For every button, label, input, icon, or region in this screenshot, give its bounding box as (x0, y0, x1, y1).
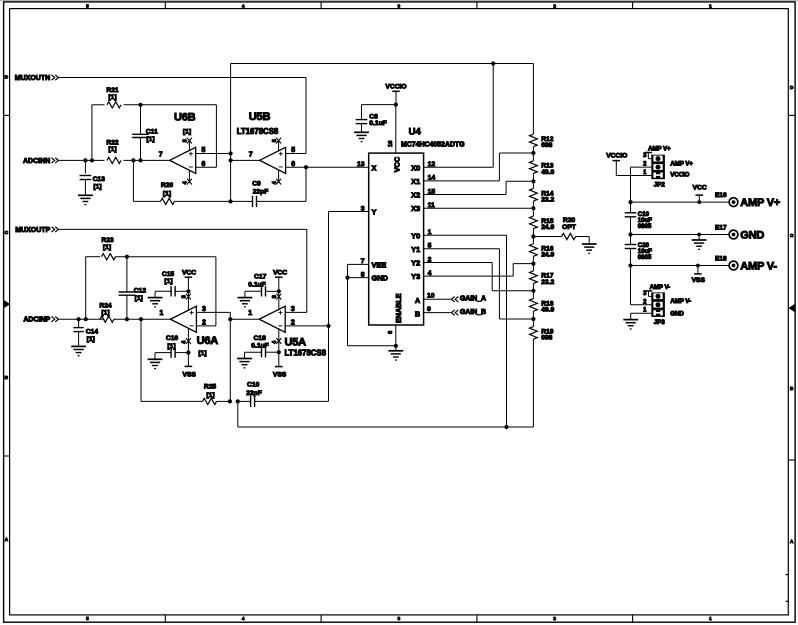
svg-text:6: 6 (201, 161, 205, 168)
U6B power pin 4 (183, 170, 192, 185)
svg-text:Y2: Y2 (411, 259, 420, 268)
junction ladder return riser (236, 399, 240, 403)
U5B pin 6 stub and wire to U4 X (286, 161, 369, 168)
svg-text:C9: C9 (252, 181, 261, 188)
node VSS flag at C16 (183, 353, 197, 379)
svg-text:D: D (790, 85, 794, 90)
svg-text:[1]: [1] (101, 309, 109, 316)
svg-text:ADCINP: ADCINP (23, 317, 50, 324)
svg-text:VCC: VCC (693, 185, 707, 192)
frame row ticks right (788, 114, 795, 116)
svg-text:5: 5 (291, 147, 295, 154)
svg-text:C13: C13 (93, 176, 106, 183)
ground at C16 (148, 359, 163, 368)
wire node A vertical (230, 64, 232, 202)
svg-text:23.2: 23.2 (541, 196, 554, 203)
wire top rail to ladder (231, 63, 534, 65)
junction VEE/GND (345, 276, 349, 280)
capacitor C20 (625, 242, 653, 261)
svg-text:[1]: [1] (146, 136, 154, 143)
U5A power pin 4 (272, 328, 281, 352)
junction C9 wire / node A (229, 199, 233, 203)
svg-text:2: 2 (553, 616, 556, 621)
node MUXOUTN input flag (15, 75, 59, 82)
node VSS flag at C18 (273, 352, 287, 378)
svg-text:GND: GND (372, 274, 389, 283)
svg-text:B: B (415, 309, 420, 318)
svg-text:R26: R26 (161, 182, 174, 189)
svg-text:2: 2 (291, 320, 295, 327)
frame top grey edge (0, 0, 798, 2)
resistor R22 (106, 139, 121, 163)
svg-text:10: 10 (427, 293, 435, 300)
svg-text:MC74HC4052ADTG: MC74HC4052ADTG (401, 141, 465, 148)
svg-text:A: A (5, 537, 9, 542)
resistor R16 (530, 237, 555, 264)
capacitor C12 (119, 257, 147, 320)
wire ADCINP line (left part) (59, 318, 105, 320)
svg-text:Y1: Y1 (411, 245, 420, 254)
svg-text:0805: 0805 (638, 254, 652, 261)
svg-text:5: 5 (201, 147, 205, 154)
svg-text:VSS: VSS (183, 371, 197, 378)
svg-text:MUXOUTN: MUXOUTN (15, 75, 50, 82)
svg-text:7: 7 (249, 151, 253, 158)
U5B pin 5 stub (286, 147, 306, 154)
capacitor C11 (132, 105, 158, 161)
wire R22 right to U6B output (124, 159, 170, 161)
ground at U4 (388, 346, 403, 360)
svg-text:D: D (5, 75, 9, 80)
op-amp U6A (170, 306, 218, 357)
svg-text:C17: C17 (254, 274, 267, 281)
wire Y3 route (424, 264, 534, 277)
junction R25 riser (139, 317, 143, 321)
svg-text:16: 16 (388, 140, 394, 147)
junction ladder tap y=236.5 (531, 234, 535, 238)
junction U6B pin5 / node A (229, 151, 233, 155)
svg-text:24.9: 24.9 (541, 224, 554, 231)
svg-text:ADCINN: ADCINN (23, 158, 50, 165)
capacitor C9 (231, 181, 306, 208)
wire AMP V+ / V- distribution vertical (630, 167, 632, 305)
junction U5A out / node A2 (228, 317, 232, 321)
U5A pin 3 stub (285, 306, 307, 313)
resistor R18 (530, 291, 555, 319)
junction C18 / U5A pin4 (277, 350, 281, 354)
svg-text:[1]: [1] (93, 184, 101, 191)
frame column ticks top (164, 2, 166, 9)
svg-text:[1]: [1] (183, 128, 191, 135)
junction R26 riser (131, 158, 135, 162)
junction AMP V- rail (628, 263, 632, 267)
svg-text:B: B (790, 386, 794, 391)
capacitor C18 (245, 335, 279, 359)
wire U5B pin 7 input (231, 159, 260, 161)
node GAIN_A label (451, 296, 486, 303)
wire U4 pin 8 GND (348, 277, 369, 279)
U6A pin 2 stub (196, 320, 216, 327)
U6B power pin 8 (183, 138, 192, 151)
U5A pin 2 stub (285, 320, 328, 327)
junction U5A pin2 / Y riser (326, 324, 330, 328)
svg-text:49.9: 49.9 (541, 307, 554, 314)
ground at R20 (582, 244, 597, 253)
node VCC flag on AMP V+ rail (693, 185, 707, 204)
svg-text:8: 8 (182, 295, 188, 298)
svg-text:Y: Y (372, 207, 377, 216)
U6A power pin 8 (182, 291, 191, 310)
capacitor C17 (245, 274, 279, 298)
svg-text:3: 3 (643, 153, 647, 159)
svg-text:0805: 0805 (638, 223, 652, 230)
JP3 net labels (670, 298, 691, 317)
svg-text:E17: E17 (715, 224, 727, 231)
junction node A2 / R25 wire (228, 399, 232, 403)
svg-text:[1]: [1] (87, 336, 95, 343)
wire MUXOUTP to U5A +in (59, 229, 307, 312)
ground at C17 (238, 298, 253, 307)
svg-text:AMP V-: AMP V- (670, 298, 691, 305)
wire Y2 route (424, 263, 534, 291)
ground at C14 (71, 346, 86, 355)
node VSS flag on AMP V- rail (692, 264, 706, 285)
junction C17 / U5A pin8 (277, 289, 281, 293)
connector JP2 (631, 153, 666, 188)
svg-text:3: 3 (202, 306, 206, 313)
wire R24 right to U6A output (114, 318, 170, 320)
wire X0 route (424, 64, 494, 168)
svg-text:X1: X1 (411, 177, 420, 186)
node AMP V+ flag at JP2 pin3 (645, 145, 671, 158)
junction ladder tap y=153.0 (531, 151, 535, 155)
resistor R14 (530, 181, 555, 208)
frame nubs right edge (786, 574, 789, 576)
resistor R19 (530, 319, 554, 427)
wire VEE/GND down to ground (348, 278, 396, 346)
wire Y riser down to C10 (328, 326, 330, 402)
wire AMP V- rail (631, 265, 730, 267)
svg-text:1: 1 (159, 310, 163, 317)
wire U4 pin 7 VEE (348, 264, 369, 277)
svg-text:C11: C11 (146, 128, 158, 135)
svg-text:0.1uF: 0.1uF (369, 120, 386, 127)
svg-text:A: A (790, 539, 794, 544)
node ADCINP input flag (23, 317, 58, 324)
node GAIN_B label (451, 309, 486, 316)
junction ladder tap y=181.3 (531, 179, 535, 183)
svg-text:49.9: 49.9 (541, 169, 554, 176)
svg-text:R20: R20 (563, 217, 576, 224)
junction U5B pin6 / C9 riser (304, 165, 308, 169)
wire R21 riser (92, 105, 105, 161)
svg-text:2: 2 (202, 320, 206, 327)
svg-text:VCC: VCC (393, 156, 402, 172)
capacitor C15 (155, 271, 188, 298)
U4 pin number labels right (427, 161, 435, 313)
junction R21-riser / ADCINN (90, 158, 94, 162)
svg-text:4: 4 (272, 341, 278, 344)
svg-text:23.2: 23.2 (541, 279, 554, 286)
svg-text:22pF: 22pF (246, 390, 262, 397)
wire X2 route (424, 181, 534, 194)
capacitor C13 (80, 160, 106, 195)
svg-text:VSS: VSS (273, 371, 287, 378)
junction AMP V+ rail (628, 200, 632, 204)
U6B pin 6 stub (196, 161, 217, 168)
svg-text:5: 5 (86, 616, 89, 621)
capacitor C14 (73, 319, 98, 346)
wire ladder bottom return (238, 401, 534, 427)
svg-text:U6B: U6B (174, 112, 196, 124)
node MUXOUTP input flag (15, 227, 58, 234)
svg-text:13: 13 (357, 161, 365, 168)
U6A power pin 4 (182, 328, 191, 352)
svg-text:4: 4 (272, 181, 278, 184)
svg-text:MUXOUTP: MUXOUTP (15, 227, 50, 234)
node ADCINN input flag (23, 158, 58, 165)
svg-text:[1]: [1] (206, 392, 214, 399)
svg-text:8: 8 (183, 139, 189, 142)
wire AMP V+ rail (631, 201, 730, 203)
svg-text:C10: C10 (247, 382, 260, 389)
svg-text:LT1678CS8: LT1678CS8 (237, 127, 279, 136)
junction X0 riser on rail (491, 61, 495, 65)
U4 pin number labels left (357, 161, 365, 278)
U5B power pin 4 (272, 170, 281, 185)
svg-text:LT1678CS8: LT1678CS8 (285, 349, 327, 358)
svg-text:JP2: JP2 (654, 181, 666, 188)
ground at C13 (78, 195, 93, 204)
svg-text:AMP V+: AMP V+ (670, 161, 693, 168)
frame row ticks left (4, 114, 10, 116)
junction U5B out / node A (229, 158, 233, 162)
svg-text:E18: E18 (715, 255, 727, 262)
svg-text:X3: X3 (411, 204, 420, 213)
svg-text:VCC: VCC (273, 269, 287, 276)
svg-text:4: 4 (183, 181, 189, 184)
wire R23 to U6A -in riser (116, 257, 216, 326)
svg-text:U4: U4 (409, 126, 422, 137)
svg-text:X2: X2 (411, 191, 420, 200)
svg-text:X0: X0 (411, 163, 420, 172)
node AMP V- flag at JP3 pin3 (645, 284, 670, 296)
svg-text:ENABLE: ENABLE (394, 293, 403, 323)
U5A power pin 8 (272, 291, 281, 310)
svg-text:Y3: Y3 (411, 272, 420, 281)
op-amp U5A (259, 306, 326, 357)
frame column ticks bottom (164, 615, 166, 622)
wire U4 Y pin to U5A -in (329, 212, 369, 326)
ground at C8 (354, 132, 369, 141)
svg-text:3: 3 (398, 4, 401, 9)
node VCC flag at C15 (182, 269, 196, 291)
resistor R25 (203, 383, 230, 404)
junction ladder tap y=263.6 (531, 262, 535, 266)
U6A pin 3 stub (196, 306, 230, 313)
wire X3 route (424, 207, 534, 209)
svg-text:VCC: VCC (182, 269, 196, 276)
wire U4 pin 10 A stub (424, 298, 451, 300)
capacitor C8 (356, 105, 396, 133)
svg-text:C14: C14 (86, 328, 99, 335)
svg-text:698: 698 (541, 142, 552, 149)
junction C13 / ADCINN (83, 158, 87, 162)
svg-text:4: 4 (242, 616, 245, 621)
svg-text:GND: GND (740, 229, 764, 241)
svg-text:4: 4 (242, 4, 245, 9)
pad E16 (715, 192, 738, 207)
svg-text:[1]: [1] (167, 343, 175, 350)
connector JP3 (631, 291, 666, 326)
U4 inside labels (372, 156, 421, 323)
wire ADCINN line (left part) (59, 159, 105, 161)
junction C14 / ADCINP (77, 317, 81, 321)
svg-text:3: 3 (643, 291, 647, 297)
svg-text:X: X (372, 163, 377, 172)
wire U4 pin 6 ENABLE (388, 325, 396, 346)
junction C16 / U6A pin4 (186, 351, 190, 355)
wire Y0 route (424, 235, 507, 427)
svg-text:Y0: Y0 (411, 231, 420, 240)
wire U5A pin 1 input (230, 318, 259, 320)
op-amp U5B (237, 111, 286, 174)
svg-text:[1]: [1] (108, 94, 116, 101)
svg-text:AMP V-: AMP V- (740, 260, 777, 272)
resistor R17 (530, 264, 555, 291)
svg-text:3: 3 (398, 616, 401, 621)
resistor R23 (101, 237, 115, 260)
svg-text:E16: E16 (715, 192, 727, 199)
ground at C18 (237, 359, 252, 368)
capacitor C16 (155, 335, 188, 359)
svg-text:1: 1 (248, 310, 252, 317)
wire R21 to U6B -in riser (124, 105, 217, 167)
svg-text:OPT: OPT (562, 224, 577, 231)
svg-text:A: A (415, 296, 421, 305)
svg-text:3: 3 (291, 306, 295, 313)
junction C11 top (138, 103, 142, 107)
junction ladder tap y=319.0 (531, 317, 535, 321)
pad E18 (715, 255, 738, 270)
resistor R21 (106, 87, 121, 108)
wire X1 route (424, 153, 534, 181)
svg-text:C12: C12 (134, 287, 147, 294)
svg-text:C16: C16 (166, 335, 179, 342)
svg-text:8: 8 (272, 139, 278, 142)
svg-text:0.1uF: 0.1uF (248, 281, 265, 288)
junction ladder tap y=290.8 (531, 289, 535, 293)
junction R23-riser / ADCINP (84, 317, 88, 321)
svg-text:[1]: [1] (164, 278, 172, 285)
junction C11 bottom (138, 158, 142, 162)
svg-text:2: 2 (553, 4, 556, 9)
svg-text:GAIN_A: GAIN_A (460, 296, 486, 303)
svg-text:[1]: [1] (103, 244, 111, 251)
svg-text:VCCIO: VCCIO (670, 172, 689, 179)
IC U4 MC74HC4052ADTG box (369, 126, 465, 325)
resistor R13 (530, 153, 555, 181)
svg-text:C: C (790, 233, 794, 238)
resistor R15 (530, 208, 555, 236)
svg-text:R25: R25 (204, 383, 217, 390)
svg-text:1: 1 (709, 4, 712, 9)
svg-text:6: 6 (291, 161, 295, 168)
svg-text:698: 698 (541, 334, 552, 341)
junction ladder tap y=208.2 (531, 206, 535, 210)
svg-text:U6A: U6A (197, 335, 219, 347)
junction C15 / U6A pin8 (186, 289, 190, 293)
svg-text:0.1uF: 0.1uF (251, 343, 268, 350)
svg-text:7: 7 (159, 151, 163, 158)
svg-text:AMP V+: AMP V+ (740, 197, 780, 209)
wire C9 riser (305, 167, 307, 201)
wire MUXOUTN to U5B +in (59, 78, 306, 154)
ground at C15 (148, 298, 163, 307)
svg-text:24.9: 24.9 (541, 252, 554, 259)
wire R23 riser (86, 257, 100, 320)
wire U4 pin 16 (388, 105, 396, 154)
svg-text:[1]: [1] (135, 295, 143, 302)
wire JP3 pin1 to ground (631, 313, 652, 319)
wire R25 riser down (141, 319, 203, 401)
capacitor C19 (625, 211, 653, 230)
node VCC flag at C17 (273, 269, 287, 291)
junction C12 top (125, 255, 129, 259)
svg-text:GAIN_B: GAIN_B (460, 309, 486, 316)
svg-text:[1]: [1] (198, 350, 206, 357)
svg-text:VEE: VEE (372, 260, 387, 269)
U5B power pin 8 (272, 138, 281, 151)
svg-text:[1]: [1] (163, 190, 171, 197)
svg-text:R23: R23 (101, 237, 114, 244)
junction Y0 riser / return (504, 425, 508, 429)
resistor R24 (99, 302, 114, 322)
wire R26 riser down (132, 160, 134, 201)
node VCCIO power flag (above U4) (385, 84, 406, 105)
U6B pin 5 stub (196, 147, 231, 154)
wire Y1 route (424, 249, 534, 319)
junction GND rail (628, 232, 632, 236)
svg-text:1: 1 (709, 616, 712, 621)
frame centering arrow right (788, 304, 795, 313)
frame centering arrow left (4, 300, 11, 309)
node VCCIO flag at JP2 (606, 152, 651, 175)
svg-text:C15: C15 (162, 271, 175, 278)
resistor R12 (530, 64, 554, 154)
op-amp U6B (170, 112, 196, 174)
svg-text:6: 6 (388, 330, 394, 334)
ground on GND rail (692, 233, 707, 250)
svg-text:U5B: U5B (249, 111, 271, 123)
svg-text:22pF: 22pF (253, 188, 269, 195)
wire node A2 vertical (229, 312, 231, 401)
svg-text:U5A: U5A (285, 336, 307, 348)
JP2 net labels (670, 161, 693, 179)
junction C8 / pin16 wire (394, 103, 398, 107)
svg-text:B: B (5, 375, 9, 380)
svg-text:5: 5 (86, 4, 89, 9)
capacitor C10 (238, 382, 329, 407)
svg-text:9: 9 (427, 306, 431, 313)
svg-text:[1]: [1] (108, 146, 116, 153)
svg-text:AMP V-: AMP V- (650, 284, 671, 291)
svg-text:AMP V+: AMP V+ (648, 145, 671, 152)
resistor R26 (133, 182, 230, 204)
pad E17 (715, 224, 738, 239)
svg-text:C18: C18 (254, 335, 267, 342)
junction pin6/ground (394, 344, 398, 348)
